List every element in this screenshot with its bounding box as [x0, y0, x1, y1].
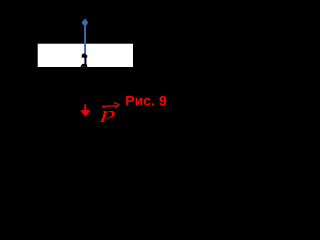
bar (beam): [38, 44, 133, 67]
pin (black weight) on bar: [80, 54, 87, 67]
svg-text:Рис. 9: Рис. 9: [125, 93, 167, 109]
force arrow F (blue, up): [82, 18, 89, 55]
vector arrow over p (red): [102, 103, 119, 108]
svg-text:p: p: [99, 105, 116, 122]
weight arrow P (red, down): [80, 104, 90, 116]
